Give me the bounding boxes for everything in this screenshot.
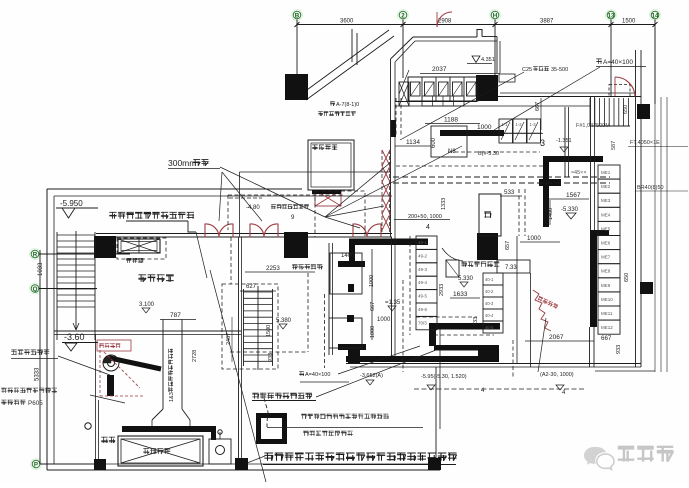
svg-text:A-7(8-1)0: A-7(8-1)0	[336, 102, 359, 108]
svg-text:1400: 1400	[548, 208, 554, 220]
svg-text:300mm: 300mm	[168, 158, 196, 168]
svg-text:3: 3	[540, 138, 545, 148]
svg-text:-5.950: -5.950	[60, 199, 83, 208]
svg-text:627: 627	[246, 284, 257, 290]
svg-text:49-3: 49-3	[418, 267, 428, 272]
svg-text:40-1: 40-1	[485, 277, 494, 282]
svg-text:1-2: 1-2	[516, 122, 523, 127]
svg-text:A=40×100: A=40×100	[603, 59, 633, 66]
svg-text:5.330: 5.330	[458, 276, 474, 282]
svg-text:2253: 2253	[266, 265, 280, 272]
svg-text:40-3: 40-3	[485, 301, 494, 306]
svg-text:667: 667	[601, 335, 612, 342]
svg-text:533: 533	[473, 317, 479, 326]
svg-text:787: 787	[170, 312, 181, 319]
svg-text:-5.95(-5.30, 1.520): -5.95(-5.30, 1.520)	[421, 374, 467, 380]
svg-text:650: 650	[624, 273, 630, 282]
svg-text:2067: 2067	[549, 334, 564, 341]
svg-text:1500: 1500	[266, 325, 272, 337]
svg-text:40-5: 40-5	[485, 325, 494, 330]
svg-text:5333: 5333	[35, 367, 41, 381]
svg-text:40-2: 40-2	[485, 289, 494, 294]
svg-text:H: H	[493, 12, 498, 19]
svg-text:ME9: ME9	[601, 283, 611, 288]
svg-text:70/3: 70/3	[418, 320, 427, 325]
svg-text:3.100: 3.100	[139, 302, 155, 308]
svg-text:-3.60: -3.60	[64, 332, 85, 342]
svg-text:A=40×100: A=40×100	[305, 372, 330, 378]
svg-text:1-1: 1-1	[502, 122, 509, 127]
svg-text:(A2-30, 1000): (A2-30, 1000)	[540, 372, 574, 378]
svg-text:1&3: 1&3	[169, 392, 175, 402]
svg-text:1-3: 1-3	[530, 122, 537, 127]
svg-text:40-4: 40-4	[485, 313, 494, 318]
svg-text:1000: 1000	[527, 235, 541, 242]
svg-text:933: 933	[616, 345, 622, 354]
svg-text:657: 657	[505, 241, 511, 250]
svg-text:2933: 2933	[439, 284, 445, 296]
svg-text:FT,4050×1E: FT,4050×1E	[630, 140, 660, 146]
svg-text:ME5: ME5	[601, 226, 611, 231]
svg-text:1188: 1188	[444, 117, 458, 124]
svg-text:2467: 2467	[226, 333, 232, 345]
svg-text:49-2: 49-2	[418, 253, 428, 258]
svg-text:2037: 2037	[432, 66, 447, 73]
svg-text:2908: 2908	[438, 19, 452, 25]
svg-text:R: R	[33, 251, 38, 258]
svg-text:ME4: ME4	[601, 212, 611, 217]
svg-text:7.33: 7.33	[505, 265, 517, 271]
svg-text:1500: 1500	[622, 19, 636, 25]
svg-text:1134: 1134	[406, 139, 420, 146]
svg-text:933: 933	[268, 353, 274, 362]
svg-text:ME10: ME10	[601, 297, 613, 302]
svg-text:14: 14	[652, 12, 659, 19]
svg-text:P: P	[34, 461, 38, 468]
svg-text:49-4: 49-4	[418, 280, 428, 285]
svg-text:-3.652(A): -3.652(A)	[360, 373, 383, 379]
svg-text:1000: 1000	[477, 124, 492, 131]
svg-text:-5.330: -5.330	[561, 207, 579, 213]
svg-text:ME3: ME3	[601, 198, 611, 203]
svg-text:13: 13	[608, 12, 615, 19]
svg-text:1567: 1567	[566, 192, 581, 199]
svg-text:49-6: 49-6	[418, 307, 428, 312]
svg-text:49-1: 49-1	[418, 240, 428, 245]
svg-text:Q: Q	[33, 286, 38, 293]
svg-text:1333: 1333	[441, 198, 447, 210]
svg-text:ME1: ME1	[601, 170, 611, 175]
svg-text:2728: 2728	[192, 350, 198, 362]
svg-text:1000: 1000	[369, 275, 375, 287]
svg-text:667: 667	[535, 102, 541, 111]
svg-text:ME12: ME12	[601, 325, 613, 330]
svg-text:4.351: 4.351	[481, 57, 495, 63]
svg-text:ME6: ME6	[601, 241, 611, 246]
svg-text:BR40(8)50: BR40(8)50	[637, 185, 664, 191]
svg-text:ME7: ME7	[601, 255, 611, 260]
svg-text:1633: 1633	[453, 291, 468, 298]
svg-text:1000: 1000	[370, 326, 376, 338]
svg-text:200+50, 1000: 200+50, 1000	[408, 214, 442, 220]
svg-text:≈45××: ≈45××	[571, 170, 587, 176]
svg-text:B: B	[295, 12, 300, 19]
svg-text:600: 600	[431, 137, 437, 148]
svg-text:1033: 1033	[38, 262, 44, 276]
svg-text:ME8: ME8	[601, 269, 611, 274]
svg-text:4: 4	[426, 224, 430, 231]
svg-text:2: 2	[401, 12, 405, 19]
svg-text:P605: P605	[28, 400, 43, 407]
svg-text:=1.35: =1.35	[385, 300, 401, 306]
svg-text:3600: 3600	[340, 19, 354, 25]
svg-text:ME2: ME2	[601, 184, 611, 189]
svg-text:-1.351: -1.351	[556, 138, 572, 144]
svg-text:587: 587	[611, 141, 617, 150]
svg-text:533: 533	[504, 189, 515, 196]
svg-text:1400: 1400	[341, 253, 355, 259]
svg-text:ME11: ME11	[601, 311, 613, 316]
svg-text:3887: 3887	[540, 19, 554, 25]
svg-text:1000: 1000	[377, 317, 391, 323]
svg-text:667: 667	[370, 302, 376, 311]
svg-text:49-5: 49-5	[418, 294, 428, 299]
svg-text:35-500: 35-500	[551, 67, 568, 73]
